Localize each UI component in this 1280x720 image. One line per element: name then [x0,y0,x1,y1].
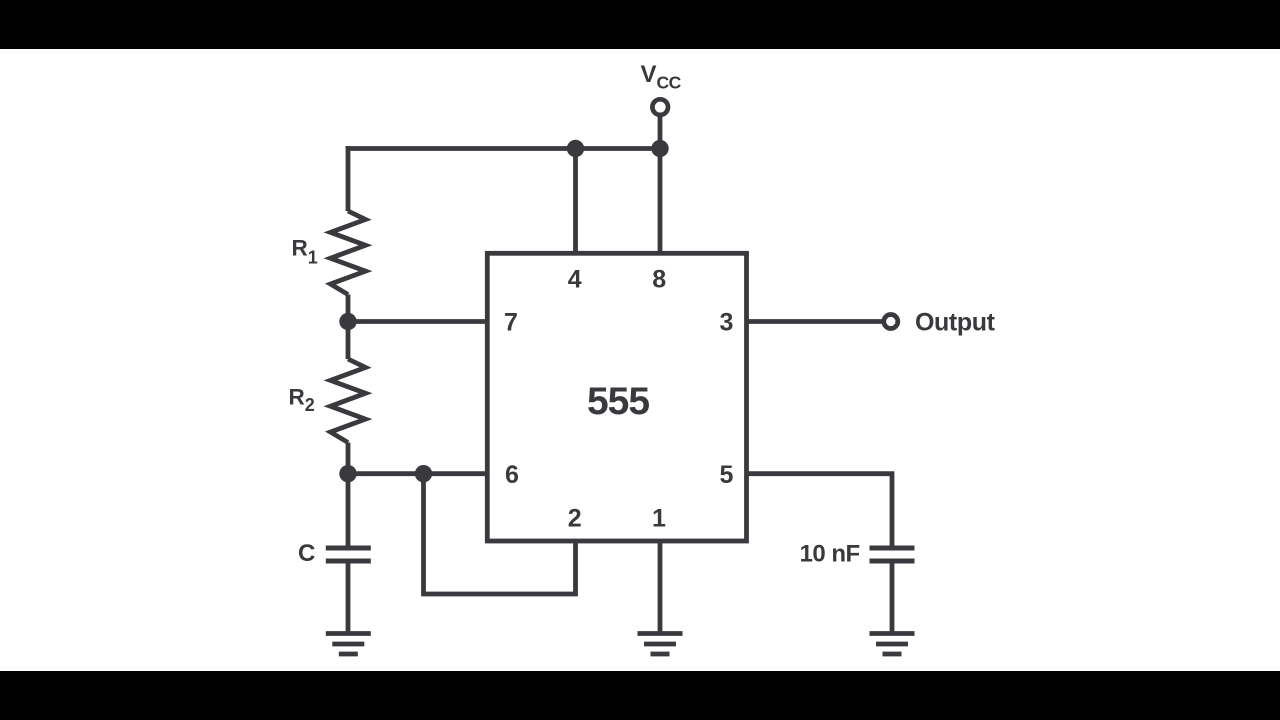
node junction on bus at pin 4 [567,140,584,157]
capacitor C2 10 nF [870,548,915,561]
wire pin 7 connection [348,319,487,324]
wire pin 6 connection [348,471,487,476]
svg-text:6: 6 [505,461,519,489]
svg-text:4: 4 [568,266,582,294]
wire pin 5 connection [747,474,892,546]
svg-text:Output: Output [915,309,996,337]
wire R1 bottom lead [346,295,351,322]
node junction on bus at Vcc [651,140,668,157]
capacitor C [326,548,371,561]
node junction R2/C/pin6 [339,465,356,482]
svg-text:555: 555 [587,380,649,423]
wire capacitor C top lead [346,474,351,546]
svg-text:VCC: VCC [641,61,682,93]
svg-text:5: 5 [720,461,734,489]
svg-text:2: 2 [568,505,582,533]
wire capacitor C2 bottom lead [890,564,895,634]
node junction R1/R2/pin7 [339,313,356,330]
Vcc terminal circle [652,99,668,115]
svg-text:10 nF: 10 nF [800,541,860,568]
wire R2 top lead [346,322,351,360]
resistor R2 [331,359,366,443]
wire pin 4 stub [573,149,578,256]
ground middle [638,634,683,655]
svg-text:3: 3 [720,309,734,337]
svg-text:7: 7 [504,309,518,337]
wire top supply bus [348,146,660,151]
wire Vcc stub [658,116,663,149]
wire pin 8 stub [658,149,663,256]
wire pin 2 loop [424,474,576,594]
node junction pin2 tap [415,465,432,482]
IC U1 555 outline [487,253,746,541]
svg-text:C: C [298,540,315,567]
wire pin 3 output [747,319,882,324]
wire capacitor C bottom lead [346,564,351,634]
ground left [326,634,371,655]
svg-text:8: 8 [652,266,666,294]
svg-text:R2: R2 [289,385,315,416]
wire pin 1 ground lead [658,543,663,634]
svg-text:1: 1 [652,505,666,533]
Output terminal circle [884,315,898,329]
wire R2 bottom lead [346,443,351,474]
resistor R1 [331,211,366,295]
ground right [870,634,915,655]
svg-text:R1: R1 [292,236,318,268]
wire left drop from bus to R1 [346,146,351,211]
